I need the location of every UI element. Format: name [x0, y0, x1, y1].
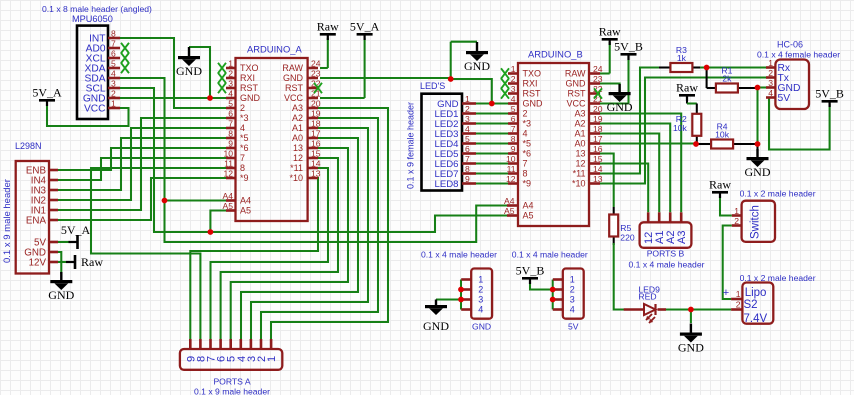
svg-text:10: 10	[506, 154, 516, 164]
svg-text:2: 2	[228, 69, 233, 79]
svg-text:4: 4	[570, 305, 575, 315]
svg-text:2: 2	[736, 300, 741, 310]
svg-text:12: 12	[223, 169, 233, 179]
svg-text:8: 8	[228, 129, 233, 139]
svg-text:GND: GND	[566, 79, 587, 89]
svg-text:GND: GND	[176, 64, 202, 78]
svg-text:0.1 x 4 male header: 0.1 x 4 male header	[421, 250, 497, 260]
svg-text:*5: *5	[523, 139, 532, 149]
svg-text:15: 15	[593, 154, 603, 164]
svg-text:8: 8	[240, 163, 245, 173]
svg-text:12: 12	[506, 174, 516, 184]
svg-text:2: 2	[111, 89, 116, 99]
svg-text:RED: RED	[638, 291, 656, 301]
svg-text:4: 4	[523, 129, 528, 139]
svg-text:RAW: RAW	[282, 63, 303, 73]
svg-text:7: 7	[465, 154, 470, 164]
svg-text:TXO: TXO	[240, 63, 259, 73]
svg-text:+: +	[723, 287, 729, 299]
svg-text:MPU6050: MPU6050	[72, 14, 113, 24]
svg-text:3: 3	[228, 79, 233, 89]
svg-text:0.1 x 4 male header: 0.1 x 4 male header	[512, 250, 588, 260]
svg-text:4: 4	[478, 305, 483, 315]
svg-text:A5: A5	[222, 201, 233, 211]
svg-text:6: 6	[228, 109, 233, 119]
svg-text:14: 14	[311, 159, 321, 169]
svg-text:LED'S: LED'S	[420, 81, 445, 91]
svg-text:*3: *3	[240, 113, 249, 123]
svg-text:8: 8	[111, 29, 116, 39]
svg-text:GND: GND	[240, 93, 261, 103]
svg-text:A3: A3	[292, 103, 303, 113]
svg-text:Raw: Raw	[599, 25, 621, 39]
svg-text:0.1 x 2 male header: 0.1 x 2 male header	[740, 189, 816, 199]
svg-text:7: 7	[240, 153, 245, 163]
svg-text:ENA: ENA	[26, 215, 47, 226]
svg-text:ARDUINO_B: ARDUINO_B	[528, 49, 583, 60]
svg-text:A4: A4	[240, 196, 251, 206]
svg-text:4: 4	[465, 124, 470, 134]
svg-text:A4: A4	[523, 201, 534, 211]
svg-text:GND: GND	[423, 319, 449, 333]
svg-text:16: 16	[311, 139, 321, 149]
svg-text:5V_B: 5V_B	[516, 264, 545, 278]
svg-text:19: 19	[593, 114, 603, 124]
svg-text:8: 8	[511, 134, 516, 144]
svg-text:Raw: Raw	[81, 255, 103, 269]
svg-text:1: 1	[478, 275, 483, 285]
svg-text:15: 15	[311, 149, 321, 159]
svg-text:GND: GND	[464, 59, 490, 73]
svg-text:7: 7	[111, 39, 116, 49]
svg-text:13: 13	[593, 174, 603, 184]
svg-text:4: 4	[511, 94, 516, 104]
svg-text:*10: *10	[289, 173, 303, 183]
svg-text:TXO: TXO	[523, 69, 542, 79]
svg-text:R5: R5	[620, 223, 631, 233]
svg-text:GND: GND	[283, 73, 304, 83]
svg-text:A3: A3	[676, 231, 688, 244]
svg-text:2: 2	[734, 216, 739, 226]
svg-text:*5: *5	[240, 133, 249, 143]
svg-text:A5: A5	[240, 206, 251, 216]
svg-text:1: 1	[111, 99, 116, 109]
svg-text:A2: A2	[292, 113, 303, 123]
svg-text:1: 1	[465, 94, 470, 104]
svg-text:16: 16	[593, 144, 603, 154]
svg-text:13: 13	[575, 149, 585, 159]
svg-text:0.1 x 8 male header (angled): 0.1 x 8 male header (angled)	[42, 4, 152, 14]
svg-text:1k: 1k	[677, 53, 687, 63]
svg-text:12: 12	[293, 153, 303, 163]
svg-text:10k: 10k	[673, 123, 688, 133]
svg-text:LED8: LED8	[435, 179, 459, 190]
svg-text:A3: A3	[574, 109, 585, 119]
svg-text:0.1 x 2 male header: 0.1 x 2 male header	[740, 273, 816, 283]
svg-text:5: 5	[228, 99, 233, 109]
svg-text:VCC: VCC	[84, 103, 106, 114]
svg-text:2: 2	[570, 285, 575, 295]
svg-text:4: 4	[240, 123, 245, 133]
svg-text:13: 13	[293, 143, 303, 153]
svg-text:5: 5	[111, 59, 116, 69]
svg-text:10k: 10k	[715, 130, 730, 140]
svg-text:14: 14	[593, 164, 603, 174]
svg-text:L298N: L298N	[15, 141, 42, 151]
svg-text:Raw: Raw	[317, 20, 339, 34]
svg-text:6: 6	[111, 49, 116, 59]
svg-text:*9: *9	[240, 173, 249, 183]
svg-text:9: 9	[465, 174, 470, 184]
svg-text:24: 24	[593, 64, 603, 74]
svg-text:11: 11	[224, 159, 233, 169]
svg-text:A4: A4	[222, 191, 233, 201]
svg-text:Switch: Switch	[750, 205, 762, 239]
svg-text:S2: S2	[744, 299, 758, 311]
svg-text:A4: A4	[504, 196, 515, 206]
svg-text:5V_A: 5V_A	[61, 223, 91, 237]
svg-text:19: 19	[311, 109, 321, 119]
svg-text:GND: GND	[678, 341, 704, 355]
svg-text:7.4V: 7.4V	[744, 313, 768, 325]
svg-text:VCC: VCC	[284, 93, 304, 103]
svg-text:12: 12	[575, 159, 585, 169]
svg-text:7: 7	[511, 124, 516, 134]
svg-text:12V: 12V	[29, 257, 47, 268]
svg-text:*6: *6	[240, 143, 249, 153]
svg-text:5: 5	[465, 134, 470, 144]
svg-text:Raw: Raw	[709, 178, 731, 192]
svg-text:6: 6	[465, 144, 470, 154]
svg-text:5V_A: 5V_A	[32, 86, 62, 100]
svg-text:24: 24	[311, 59, 321, 69]
svg-text:ARDUINO_A: ARDUINO_A	[247, 44, 302, 55]
svg-text:1: 1	[266, 356, 278, 362]
svg-text:9: 9	[511, 144, 516, 154]
svg-text:220: 220	[620, 232, 635, 242]
svg-text:*6: *6	[523, 149, 532, 159]
svg-text:2k: 2k	[722, 74, 732, 84]
svg-text:3: 3	[511, 84, 516, 94]
svg-text:RST: RST	[240, 83, 259, 93]
svg-text:2: 2	[768, 68, 773, 78]
svg-text:*11: *11	[573, 169, 586, 179]
svg-text:RST: RST	[568, 89, 587, 99]
svg-text:17: 17	[311, 129, 321, 139]
svg-text:GND: GND	[607, 100, 633, 114]
svg-text:GND: GND	[48, 288, 74, 302]
svg-text:5V_A: 5V_A	[350, 20, 380, 34]
svg-text:2: 2	[240, 103, 245, 113]
svg-text:1: 1	[768, 58, 773, 68]
svg-text:8: 8	[465, 164, 470, 174]
svg-text:10: 10	[223, 149, 233, 159]
svg-text:A2: A2	[574, 119, 585, 129]
svg-text:5V: 5V	[778, 93, 791, 104]
svg-text:2: 2	[465, 104, 470, 114]
svg-text:20: 20	[593, 104, 603, 114]
svg-text:Raw: Raw	[676, 81, 698, 95]
svg-text:0.1 x 9 female header: 0.1 x 9 female header	[406, 102, 416, 189]
svg-text:7: 7	[228, 119, 233, 129]
svg-text:1: 1	[511, 64, 516, 74]
svg-text:RXI: RXI	[240, 73, 255, 83]
svg-text:A0: A0	[574, 139, 585, 149]
svg-text:20: 20	[311, 99, 321, 109]
svg-text:18: 18	[311, 119, 321, 129]
svg-text:0.1 x 4 male header: 0.1 x 4 male header	[629, 260, 705, 270]
svg-text:RAW: RAW	[565, 69, 586, 79]
svg-text:*9: *9	[523, 179, 532, 189]
svg-text:5V_B: 5V_B	[815, 87, 844, 101]
svg-text:HC-06: HC-06	[777, 40, 803, 50]
svg-text:*3: *3	[523, 119, 532, 129]
svg-text:3: 3	[111, 79, 116, 89]
svg-text:A5: A5	[523, 211, 534, 221]
svg-text:GND: GND	[523, 99, 544, 109]
svg-text:3: 3	[478, 295, 483, 305]
svg-text:2: 2	[523, 109, 528, 119]
svg-text:*10: *10	[572, 179, 586, 189]
svg-text:3: 3	[465, 114, 470, 124]
svg-text:RST: RST	[523, 89, 542, 99]
svg-text:9: 9	[228, 139, 233, 149]
svg-text:4: 4	[111, 69, 116, 79]
svg-text:RXI: RXI	[523, 79, 538, 89]
svg-text:A1: A1	[292, 123, 303, 133]
svg-text:1: 1	[734, 206, 739, 216]
svg-text:Lipo: Lipo	[745, 287, 767, 299]
svg-text:17: 17	[593, 134, 603, 144]
svg-text:6: 6	[511, 114, 516, 124]
svg-text:23: 23	[311, 69, 321, 79]
svg-text:23: 23	[593, 74, 603, 84]
svg-text:2: 2	[478, 285, 483, 295]
svg-text:3: 3	[768, 78, 773, 88]
svg-text:5: 5	[511, 104, 516, 114]
svg-text:0.1 x 9 male header: 0.1 x 9 male header	[194, 387, 270, 396]
svg-text:GND: GND	[745, 165, 771, 179]
svg-text:7: 7	[523, 159, 528, 169]
svg-text:A5: A5	[504, 206, 515, 216]
svg-text:4: 4	[228, 89, 233, 99]
svg-text:11: 11	[507, 164, 516, 174]
svg-text:1: 1	[570, 275, 575, 285]
svg-text:8: 8	[523, 169, 528, 179]
svg-text:A0: A0	[292, 133, 303, 143]
svg-text:2: 2	[511, 74, 516, 84]
svg-text:GND: GND	[472, 322, 491, 332]
svg-text:4: 4	[768, 88, 773, 98]
svg-text:PORTS A: PORTS A	[213, 377, 250, 387]
svg-text:18: 18	[593, 124, 603, 134]
svg-text:1: 1	[228, 59, 233, 69]
svg-text:RST: RST	[285, 83, 304, 93]
svg-text:5V: 5V	[568, 322, 579, 332]
svg-text:0.1 x 9 male header: 0.1 x 9 male header	[2, 179, 13, 263]
svg-text:5V_B: 5V_B	[614, 40, 643, 54]
svg-text:A1: A1	[574, 129, 585, 139]
svg-text:3: 3	[570, 295, 575, 305]
svg-text:13: 13	[311, 169, 321, 179]
svg-text:1: 1	[736, 289, 741, 299]
svg-text:PORTS B: PORTS B	[647, 249, 685, 259]
svg-text:VCC: VCC	[566, 99, 586, 109]
svg-text:*11: *11	[290, 163, 303, 173]
